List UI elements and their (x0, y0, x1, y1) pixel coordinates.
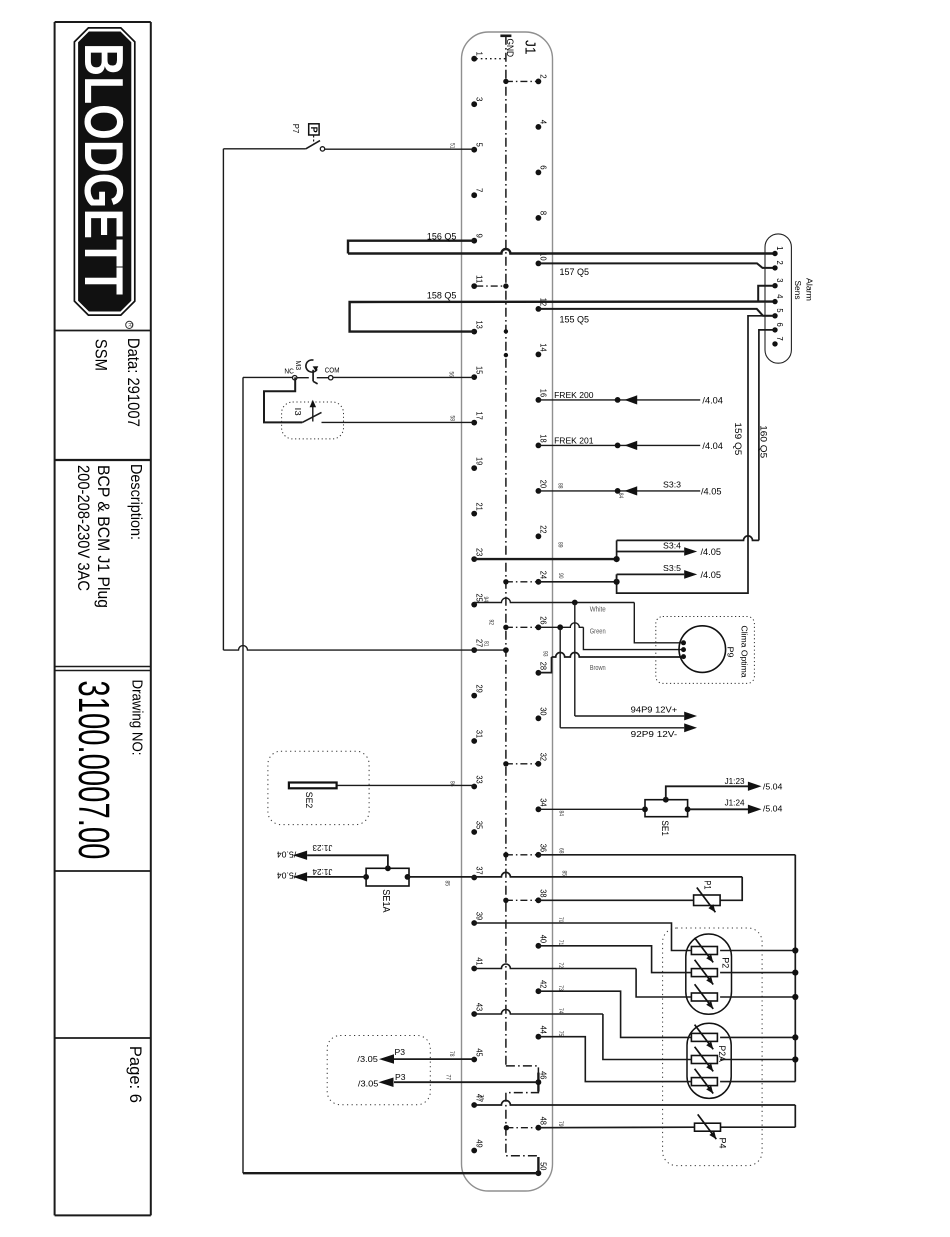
component P2 resistor 1 (691, 947, 717, 955)
svg-text:Green: Green (590, 627, 606, 636)
GND top tick (500, 34, 511, 37)
svg-text:/5.04: /5.04 (763, 805, 783, 814)
svg-text:39: 39 (474, 912, 484, 921)
svg-text:FREK 200: FREK 200 (554, 390, 594, 400)
GND node pin 2 (503, 79, 508, 84)
svg-text:159 Q5: 159 Q5 (733, 422, 743, 455)
wire 155 Q5 (538, 309, 775, 316)
pin J1-26 (536, 616, 549, 630)
wire FREK 201 (538, 444, 700, 446)
svg-text:88: 88 (557, 483, 563, 489)
svg-text:/4.05: /4.05 (701, 486, 722, 496)
pin J1-7 (471, 188, 484, 198)
pin J1-19 (471, 457, 484, 471)
wire P2A r3 to bus (720, 1081, 795, 1083)
pin J1-13 (471, 321, 484, 335)
svg-text:70: 70 (557, 917, 563, 923)
svg-text:SSM: SSM (92, 339, 111, 371)
svg-text:P: P (309, 127, 319, 133)
svg-text:17: 17 (474, 412, 484, 421)
pin J1-23 (471, 548, 484, 562)
bus node 4 (792, 1034, 798, 1040)
wire to pin 27 (223, 646, 506, 651)
arrow 94P9 (684, 712, 697, 721)
pin J1-11 (471, 275, 484, 289)
svg-text:20: 20 (539, 480, 549, 489)
svg-text:26: 26 (539, 616, 549, 625)
svg-text:42: 42 (539, 980, 549, 989)
wire 94P9 (575, 715, 684, 717)
pin J1-9 (471, 234, 484, 244)
svg-text:51: 51 (449, 143, 455, 149)
GND node pin 27 (503, 647, 509, 653)
wire 157 Q5 (538, 263, 775, 268)
GND jog from pin 46 (506, 1091, 539, 1158)
wire Brown (538, 657, 551, 673)
wire left bus A down (222, 149, 224, 650)
svg-text:155 Q5: 155 Q5 (560, 314, 590, 325)
svg-text:/3.05: /3.05 (358, 1078, 379, 1088)
svg-text:48: 48 (539, 1117, 549, 1126)
pin J1-29 (471, 685, 484, 699)
pin J1-25 (471, 594, 484, 608)
svg-text:86: 86 (449, 781, 455, 787)
title block section lines (55, 331, 151, 1039)
svg-text:1: 1 (474, 52, 484, 57)
pin J1-12 (536, 298, 549, 312)
svg-text:P1: P1 (703, 881, 713, 890)
svg-text:2: 2 (539, 74, 549, 79)
pin J1-49 (471, 1139, 484, 1153)
svg-text:FREK 201: FREK 201 (554, 436, 594, 446)
svg-text:85: 85 (561, 871, 567, 877)
wire S3:3 (538, 490, 700, 492)
svg-text:/4.04: /4.04 (702, 441, 723, 451)
svg-text:7: 7 (775, 337, 784, 342)
node pin24 junction (614, 579, 620, 585)
svg-text:23: 23 (474, 548, 484, 557)
svg-text:13: 13 (474, 321, 484, 330)
switch P7 (223, 141, 324, 151)
svg-text:Clima Optima: Clima Optima (740, 626, 749, 679)
svg-text:89: 89 (557, 542, 563, 548)
connector Alarm Sens body (765, 234, 791, 363)
svg-text:J1:24: J1:24 (725, 799, 745, 808)
Blodgett logo (73, 28, 135, 315)
wire P2 r1 to bus (720, 950, 795, 952)
svg-text:SE2: SE2 (304, 792, 314, 809)
component P2A resistor 3 (691, 1078, 717, 1086)
wire SE1A through pin37 (408, 872, 743, 877)
pin J1-6 (536, 165, 549, 175)
svg-text:Drawing NO:: Drawing NO: (129, 680, 146, 756)
svg-text:J1:23: J1:23 (725, 777, 745, 786)
svg-text:5: 5 (775, 308, 784, 313)
GND node pin 11 (503, 283, 508, 288)
svg-text:71: 71 (557, 940, 563, 946)
alarm pin 6 (772, 323, 784, 333)
wire P2A r1 to bus (720, 1036, 795, 1038)
pin 50 tick (537, 1157, 539, 1171)
svg-text:92P9 12V-: 92P9 12V- (631, 729, 678, 739)
pin J1-1 (471, 52, 484, 62)
svg-text:68: 68 (558, 848, 564, 854)
component P4 (695, 1123, 721, 1131)
component SE1A (363, 865, 410, 886)
svg-text:58: 58 (449, 416, 455, 422)
wire pin44 (538, 1037, 691, 1082)
svg-text:M3: M3 (294, 361, 303, 371)
pin J1-39 (471, 912, 484, 926)
alarm pin 4 (772, 294, 784, 304)
arrow P3 b (379, 1078, 394, 1088)
svg-text:30: 30 (539, 707, 549, 716)
GND stub pin 26 (506, 626, 537, 628)
svg-text:32: 32 (539, 753, 549, 762)
title block frame (55, 22, 151, 1215)
wire White (474, 598, 683, 643)
GND centerline upper (505, 36, 507, 1066)
centerline dot a (504, 329, 508, 333)
registered trademark (126, 321, 133, 328)
svg-text:84: 84 (617, 493, 623, 499)
P9 terminal 2 (681, 647, 686, 652)
centerline dot b (504, 353, 508, 357)
box I3 (282, 402, 344, 439)
GND node pin 26 (503, 625, 508, 630)
svg-text:3: 3 (775, 278, 784, 283)
svg-text:Description:: Description: (127, 464, 144, 540)
arrow J1:24 left (293, 872, 307, 881)
pin J1-35 (471, 821, 484, 835)
wire to P1 right (720, 877, 742, 900)
connector J1 body (462, 32, 553, 1191)
svg-text:SE1: SE1 (660, 820, 670, 836)
pin J1-15 (471, 366, 484, 380)
svg-text:P3: P3 (395, 1072, 406, 1082)
wire 160 Q5 (759, 330, 775, 541)
svg-text:Data: 291007: Data: 291007 (124, 338, 143, 427)
svg-text:81: 81 (483, 641, 489, 647)
svg-text:31: 31 (474, 730, 484, 739)
pin 46 tick (537, 1073, 539, 1092)
wire pin24 (538, 581, 616, 583)
wire pin45 to P3 (394, 1058, 474, 1060)
wire S3:5 (617, 573, 685, 575)
svg-text:92: 92 (488, 620, 494, 626)
wire 159 Q5 (617, 316, 775, 593)
svg-text:22: 22 (539, 525, 549, 534)
P9 terminal 3 (681, 654, 686, 659)
svg-text:I3: I3 (293, 408, 302, 417)
pin J1-20 (536, 480, 549, 494)
svg-text:77: 77 (445, 1075, 451, 1081)
pin J1-24 (536, 571, 549, 585)
svg-text:J1:23: J1:23 (312, 843, 332, 852)
svg-text:4: 4 (775, 294, 784, 299)
pin J1-3 (471, 97, 484, 107)
wire S3:4 (617, 551, 685, 553)
component P2 resistor 2 (691, 969, 717, 977)
svg-text:1: 1 (775, 246, 784, 251)
wire pin38 to P1 (538, 899, 693, 901)
svg-text:38: 38 (539, 889, 549, 898)
svg-text:/4.05: /4.05 (701, 570, 722, 580)
pin J1-30 (536, 707, 549, 721)
svg-text:72: 72 (557, 963, 563, 969)
pin J1-40 (536, 935, 549, 949)
pin J1-5 (471, 143, 484, 153)
box Clima Optima (656, 617, 755, 684)
svg-text:50: 50 (539, 1162, 549, 1171)
component SE2 bar (289, 783, 337, 789)
GND stub pin 2 (506, 80, 537, 82)
box SE2 (268, 751, 369, 824)
component P9 circle (679, 626, 726, 673)
arrow J1:23 right (748, 782, 762, 791)
svg-text:Alarm: Alarm (804, 278, 813, 301)
svg-text:33: 33 (474, 775, 484, 784)
GND stub pin 38 (506, 899, 537, 901)
switch M3 (293, 360, 333, 384)
svg-text:White: White (590, 604, 606, 613)
wire pin41 (474, 964, 636, 969)
GND node pin 48 (504, 1125, 509, 1130)
pin J1-4 (536, 120, 549, 130)
arrow J1:23 left (293, 851, 307, 860)
svg-text:16: 16 (539, 389, 549, 398)
svg-text:78: 78 (448, 1051, 454, 1057)
pin J1-18 (536, 434, 549, 448)
svg-text:34: 34 (539, 798, 549, 807)
svg-text:Sens: Sens (793, 281, 802, 300)
wire pin42 (538, 991, 691, 1037)
wire pin39 (474, 923, 691, 951)
wire pin36 to bus (538, 854, 795, 856)
svg-text:84: 84 (558, 811, 564, 817)
svg-text:43: 43 (474, 1003, 484, 1012)
svg-text:36: 36 (539, 844, 549, 853)
wire 92P9 (560, 727, 684, 729)
svg-text:93: 93 (542, 651, 548, 657)
pin J1-43 (471, 1003, 484, 1017)
label Alarm Sens (793, 278, 813, 301)
wire P2 r2 to bus (720, 972, 795, 974)
pin J1-47 (471, 1094, 484, 1108)
wire pin23 (474, 558, 616, 560)
svg-text:/5.04: /5.04 (276, 850, 296, 859)
wire pin15 to COM (333, 376, 474, 378)
bus node 2 (792, 970, 798, 976)
wire FREK 200 (538, 399, 700, 401)
wire pin48 to P4 (538, 1126, 694, 1129)
svg-text:90: 90 (557, 573, 563, 579)
wire P2A r2 to bus (720, 1059, 795, 1061)
component P1 (694, 895, 721, 906)
svg-text:J1: J1 (521, 40, 538, 55)
pin J1-2 (536, 74, 549, 84)
pin J1-16 (536, 389, 549, 403)
svg-text:157 Q5: 157 Q5 (560, 267, 590, 278)
svg-text:37: 37 (474, 866, 484, 875)
svg-text:6: 6 (775, 323, 784, 328)
svg-text:S3:4: S3:4 (663, 540, 681, 550)
pin J1-8 (536, 211, 549, 221)
wire pin34 to SE1 (538, 808, 645, 810)
wire SE2 to pin33 (337, 784, 475, 786)
svg-text:49: 49 (474, 1139, 484, 1148)
GND stub pin 1 (476, 58, 506, 60)
svg-text:4: 4 (539, 120, 549, 125)
box P3 (327, 1036, 430, 1105)
GND stub pin 11 (476, 285, 506, 287)
pin J1-45 (471, 1048, 484, 1062)
pin J1-31 (471, 730, 484, 744)
svg-text:11: 11 (474, 275, 484, 284)
svg-text:45: 45 (474, 1048, 484, 1057)
svg-text:24: 24 (539, 571, 549, 580)
svg-text:5: 5 (474, 143, 484, 148)
svg-text:29: 29 (474, 685, 484, 694)
wire P4 right (721, 1126, 796, 1128)
wire White branch 94P9 (574, 603, 576, 717)
svg-text:74: 74 (557, 1008, 563, 1014)
wire SE1 to J1:23 (666, 786, 748, 799)
pin J1-36 (536, 844, 549, 858)
GND jog to pin 46 (506, 1066, 539, 1074)
component P2 resistor 3 (691, 993, 717, 1001)
svg-text:9: 9 (474, 234, 484, 239)
GND node pin 38 (503, 898, 508, 903)
svg-text:SE1A: SE1A (380, 889, 391, 913)
wire 156 Q5 (348, 241, 474, 254)
svg-text:94P9 12V+: 94P9 12V+ (631, 705, 678, 715)
pin J1-32 (536, 753, 549, 767)
alarm pin 2 (772, 261, 784, 271)
svg-text:P3: P3 (395, 1047, 406, 1057)
pin J1-48 (536, 1117, 549, 1131)
pin J1-34 (536, 798, 549, 812)
svg-text:Brown: Brown (590, 663, 606, 672)
GND stub pin 32 (506, 763, 537, 765)
svg-text:Page: 6: Page: 6 (126, 1046, 145, 1103)
svg-text:94: 94 (482, 597, 488, 603)
svg-text:P7: P7 (291, 124, 300, 134)
P9 terminal 1 (681, 640, 686, 645)
GND node pin 24 (503, 579, 508, 584)
svg-text:21: 21 (474, 503, 484, 512)
svg-text:18: 18 (539, 434, 549, 443)
svg-text:158 Q5: 158 Q5 (427, 291, 457, 302)
alarm pin 5 (772, 308, 784, 318)
wire SE1 to J1:24 (688, 808, 749, 810)
switch I3 (302, 400, 321, 423)
wire P2 r3 to bus (720, 996, 795, 998)
pin J1-22 (536, 525, 549, 539)
wire NC to left bus B (243, 376, 293, 378)
svg-text:85: 85 (444, 881, 450, 887)
svg-text:/4.05: /4.05 (701, 547, 722, 557)
pin J1-50 (536, 1162, 549, 1176)
bus node 3 (792, 994, 798, 1000)
svg-text:GND: GND (505, 39, 515, 58)
box P2 P2A P4 (663, 928, 763, 1166)
svg-text:56: 56 (448, 372, 454, 378)
wire NC to I3 (264, 377, 302, 422)
svg-text:J1:24: J1:24 (312, 867, 332, 876)
svg-text:200-208-230V 3AC: 200-208-230V 3AC (74, 465, 93, 591)
GND node pin 36 (503, 852, 508, 857)
svg-text:41: 41 (474, 957, 484, 966)
pin J1-27 (471, 639, 484, 653)
wire 158 Q5 (350, 302, 775, 332)
svg-text:8: 8 (539, 211, 549, 216)
svg-text:3100.0007.00: 3100.0007.00 (69, 680, 118, 859)
wire I3 to pin17 (322, 421, 475, 423)
wire pin43 (474, 1010, 603, 1015)
GND stub pin 24 (506, 581, 537, 583)
stadium P2 (686, 934, 732, 1014)
node pin23 junction (614, 556, 620, 562)
component P2A resistor 2 (691, 1056, 717, 1064)
pin J1-14 (536, 343, 549, 357)
pin J1-41 (471, 957, 484, 971)
wire pin40 (538, 946, 691, 973)
svg-text:15: 15 (474, 366, 484, 375)
wire SE1A to J1:24 left (307, 876, 366, 878)
svg-text:P4: P4 (718, 1138, 728, 1149)
pin J1-10 (536, 252, 549, 266)
wire Green branch 92P9 (559, 627, 561, 728)
svg-text:75: 75 (557, 1031, 563, 1037)
svg-text:7: 7 (474, 188, 484, 193)
svg-text:73: 73 (557, 985, 563, 991)
svg-text:46: 46 (539, 1071, 549, 1080)
svg-text:S3:3: S3:3 (663, 479, 681, 489)
svg-text:NC: NC (284, 368, 294, 375)
svg-text:35: 35 (474, 821, 484, 830)
pressure symbol P7 (309, 124, 319, 145)
alarm pin 1 (772, 246, 784, 256)
arrow S3:5 (684, 570, 697, 579)
svg-text:/5.04: /5.04 (763, 783, 783, 792)
left bus B down (242, 377, 244, 1173)
svg-text:P2: P2 (720, 957, 730, 968)
arrow 92P9 (684, 723, 697, 732)
svg-text:19: 19 (474, 457, 484, 466)
component P2A resistor 1 (691, 1033, 717, 1041)
svg-text:6: 6 (539, 165, 549, 170)
svg-text:COM: COM (325, 367, 340, 374)
bus node 5 (792, 1056, 798, 1062)
alarm pin 3 (772, 278, 784, 288)
arrow J1:24 right (748, 805, 762, 814)
svg-text:76: 76 (478, 1095, 484, 1101)
wire alarm pin3 (758, 286, 775, 302)
svg-text:/3.05: /3.05 (357, 1054, 378, 1064)
svg-text:156 Q5: 156 Q5 (427, 231, 457, 242)
pin J1-28 (536, 662, 549, 676)
pin J1-46 (536, 1071, 549, 1085)
svg-text:160 Q5: 160 Q5 (759, 425, 769, 458)
alarm pin 7 (772, 337, 784, 347)
pin J1-44 (536, 1026, 549, 1040)
pin J1-37 (471, 866, 484, 880)
arrow P3 a (379, 1054, 394, 1064)
wire SE1A to J1:23 left (307, 855, 388, 868)
svg-text:R: R (126, 323, 132, 327)
GND stub pin 48 (506, 1127, 536, 1129)
